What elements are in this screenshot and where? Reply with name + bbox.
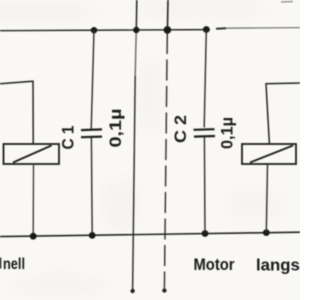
wire: K2 bottom lead bbox=[266, 164, 267, 233]
wire: K2 top lead to right edge bbox=[266, 83, 300, 144]
scan smudge top right bbox=[281, 1, 293, 4]
wire: bottom bus bbox=[0, 232, 300, 236]
wire: vertical drop at x=136 (top to bottom edge) bbox=[135, 0, 138, 30]
wire: section divider dash-dot centerline bbox=[166, 0, 169, 31]
junction: centerline top node bbox=[164, 26, 172, 34]
junction: drop wire top node bbox=[133, 27, 139, 33]
relay coil K1 (box with diagonal) bbox=[4, 144, 60, 164]
wire: C2 top lead bbox=[204, 30, 206, 128]
scan grain bbox=[0, 0, 1, 1]
junction: C1 bottom node bbox=[89, 232, 96, 239]
junction: C2 bottom node bbox=[202, 230, 209, 237]
relay coil K2 (box with diagonal) bbox=[242, 144, 296, 164]
wire: K1 top lead to left edge bbox=[0, 81, 33, 144]
wire: K1 bottom lead bbox=[32, 164, 34, 236]
junction: C2 top node bbox=[203, 26, 210, 33]
capacitor C2 plates bbox=[194, 128, 215, 131]
wire top bus (left, dark) bbox=[0, 30, 210, 31]
wire: C2 bottom lead bbox=[203, 137, 206, 233]
label: net "(sch)nell" (clipped at left edge) bbox=[0, 258, 2, 269]
junction: K1 bottom node bbox=[30, 233, 37, 240]
wire top bus (right, faint) bbox=[216, 27, 226, 30]
junction: C1 top node bbox=[91, 27, 97, 33]
capacitor C1 plates bbox=[81, 128, 102, 131]
wire: C1 top lead bbox=[91, 30, 94, 130]
junction: K2 bottom node bbox=[263, 229, 270, 236]
wire: C1 bottom lead bbox=[90, 138, 93, 236]
